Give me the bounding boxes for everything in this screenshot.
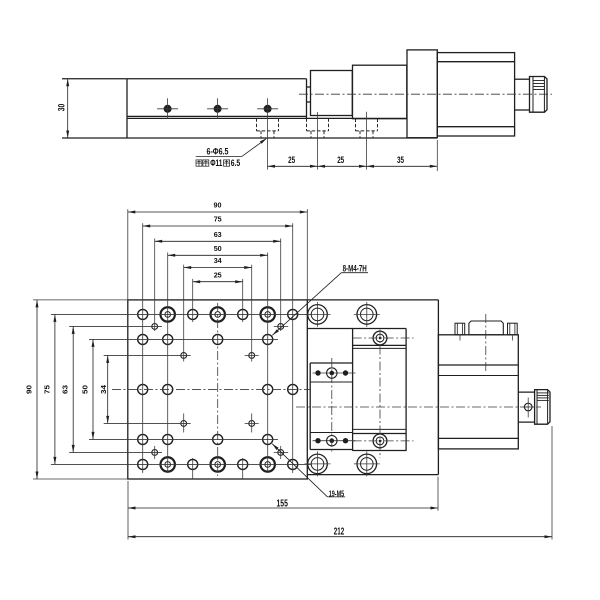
svg-text:63: 63: [61, 385, 70, 394]
svg-text:8-M4-7H: 8-M4-7H: [343, 263, 367, 273]
svg-text:25: 25: [288, 155, 295, 165]
svg-text:25: 25: [214, 270, 222, 279]
svg-text:6.5: 6.5: [231, 158, 241, 168]
svg-text:212: 212: [334, 526, 345, 537]
svg-text:75: 75: [43, 385, 52, 394]
svg-text:30: 30: [56, 104, 66, 112]
svg-text:50: 50: [214, 244, 222, 253]
svg-text:Φ11: Φ11: [210, 158, 222, 168]
svg-text:90: 90: [214, 201, 222, 210]
svg-text:50: 50: [81, 385, 90, 394]
svg-text:63: 63: [214, 230, 222, 239]
svg-text:34: 34: [214, 256, 223, 265]
svg-text:34: 34: [99, 384, 108, 394]
svg-text:35: 35: [397, 155, 404, 165]
svg-text:90: 90: [25, 385, 34, 394]
svg-text:155: 155: [277, 499, 289, 510]
svg-text:75: 75: [214, 215, 222, 224]
svg-text:25: 25: [337, 155, 344, 165]
svg-text:19-M5: 19-M5: [329, 489, 345, 498]
svg-text:6-Φ6.5: 6-Φ6.5: [207, 147, 229, 157]
